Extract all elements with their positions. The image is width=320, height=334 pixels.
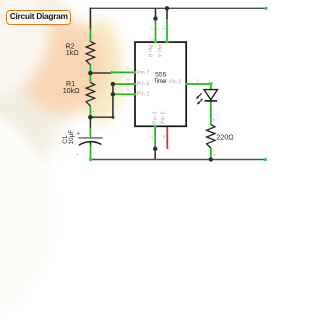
junction dot pin2 xyxy=(111,92,115,96)
wire LED anode green xyxy=(210,84,212,90)
wire R3 to ground rail green xyxy=(210,148,212,160)
pin 5 red end square xyxy=(166,147,168,149)
svg-text:Pin 1: Pin 1 xyxy=(153,111,159,124)
wire pin1 to ground rail dark xyxy=(154,149,156,160)
wire pin4 green segment xyxy=(166,19,168,43)
pin 1 leg green xyxy=(154,126,156,149)
ground rail wire xyxy=(91,159,266,161)
title badge Circuit Diagram xyxy=(6,10,71,25)
wire C1 top leg green xyxy=(89,128,91,138)
svg-text:2: 2 xyxy=(127,89,129,93)
svg-text:+: + xyxy=(76,131,80,138)
LED D1 cathode bar xyxy=(205,100,218,102)
LED D1 triangle xyxy=(204,90,218,100)
svg-text:7: 7 xyxy=(127,66,129,70)
svg-text:Pin 5: Pin 5 xyxy=(160,111,166,124)
wire pin8 green segment xyxy=(155,19,157,43)
wire C1 bottom green to ground rail xyxy=(90,145,92,160)
svg-text:4: 4 xyxy=(162,39,166,41)
svg-text:6: 6 xyxy=(127,78,129,82)
svg-text:555: 555 xyxy=(155,72,167,79)
svg-text:3: 3 xyxy=(197,79,199,83)
terminal tick marks light green xyxy=(76,29,216,155)
pin 2 leg green xyxy=(113,93,135,95)
green terminal pin8 chip edge xyxy=(154,41,157,43)
green terminal pin3 chip edge xyxy=(185,83,187,85)
junction dot pin8 riser xyxy=(153,16,157,20)
svg-text:5: 5 xyxy=(163,136,167,138)
green terminal pin1 chip edge xyxy=(154,125,156,127)
green end dot ground rail left xyxy=(89,158,92,161)
pin 5 leg red unconnected xyxy=(166,126,168,148)
green terminal pin6 chip edge xyxy=(134,83,136,85)
svg-text:Timer: Timer xyxy=(154,79,167,85)
wire pin4 riser xyxy=(166,8,168,19)
background light circle mid-left xyxy=(0,0,49,97)
svg-text:10µF: 10µF xyxy=(68,130,75,145)
LED emission arrow 2 xyxy=(199,99,203,103)
junction dot pin1 wire xyxy=(153,147,157,151)
capacitor C1 top plate xyxy=(78,137,103,139)
junction node B below R1 xyxy=(88,115,93,120)
svg-text:Pin 6: Pin 6 xyxy=(137,82,150,88)
wire C1 bottom leg dark xyxy=(90,142,92,147)
resistor R2 zigzag xyxy=(86,41,94,64)
green dot pin7 outer end xyxy=(110,71,113,74)
svg-text:10kΩ: 10kΩ xyxy=(63,86,81,95)
junction corner mid vertical xyxy=(111,116,114,119)
svg-text:8: 8 xyxy=(151,39,155,41)
wire top rail xyxy=(90,7,266,9)
svg-text:1kΩ: 1kΩ xyxy=(66,48,80,57)
background cream band left xyxy=(0,0,75,190)
pin 3 wire green to LED xyxy=(186,83,211,85)
wire node A to pin7 dark xyxy=(90,72,112,74)
pin 6 leg green xyxy=(113,83,135,85)
junction node A R2/R1/pin7 xyxy=(88,71,93,76)
green end dot top rail xyxy=(264,7,267,10)
svg-text:Pin 4: Pin 4 xyxy=(156,44,162,57)
wire node B to C1 dark xyxy=(89,117,91,128)
op IC U1 555 timer body xyxy=(135,42,186,126)
resistor R3 220 zigzag xyxy=(207,125,215,148)
wire left vertical from top rail xyxy=(89,8,91,30)
wire R2 bottom leg green to node A xyxy=(89,65,91,83)
wire R2 top leg green xyxy=(89,28,91,41)
capacitor C1 curved plate xyxy=(79,142,102,146)
wire node B horizontal xyxy=(90,116,113,118)
wire R1 bottom leg green xyxy=(89,106,91,117)
green bend dot pin3 corner xyxy=(209,82,213,86)
wire mid vertical pin6-pin2-node xyxy=(112,84,114,117)
pin 7 leg green xyxy=(112,71,136,73)
green terminal pin7 chip edge xyxy=(134,71,136,73)
junction dot pin4 on top rail xyxy=(165,6,169,10)
svg-text:1: 1 xyxy=(150,136,154,138)
background white circle bottom-left xyxy=(0,98,55,334)
green terminal pin2 chip edge xyxy=(134,93,136,95)
background peach circle xyxy=(19,19,108,114)
junction dot LED column on rail xyxy=(209,157,213,161)
green terminal pin4 chip edge xyxy=(166,41,169,43)
svg-text:Pin 3: Pin 3 xyxy=(169,79,181,85)
wire LED cathode to R3 green xyxy=(210,101,212,125)
svg-text:Pin 2: Pin 2 xyxy=(137,92,150,98)
svg-text:Pin 7: Pin 7 xyxy=(137,70,150,76)
wire pin8 riser xyxy=(155,8,157,19)
resistor R1 zigzag xyxy=(86,83,94,107)
green end dot ground rail right xyxy=(264,158,267,161)
background pale yellow ellipse xyxy=(78,17,124,125)
junction dot pin6 xyxy=(111,82,115,86)
svg-text:220Ω: 220Ω xyxy=(216,133,234,142)
svg-text:Pin 8: Pin 8 xyxy=(146,44,152,57)
LED emission arrow 1 xyxy=(198,93,202,97)
